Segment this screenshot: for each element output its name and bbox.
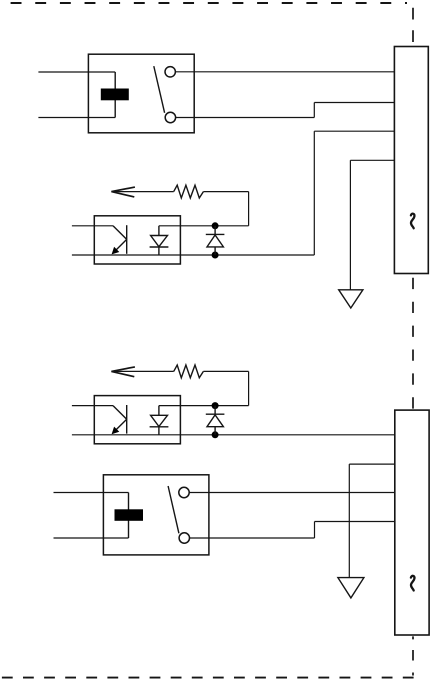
wire: R2 right lead	[203, 370, 248, 372]
node D junction dot (bottom)	[212, 431, 219, 438]
U1 LED cathode bar	[150, 246, 169, 248]
ground symbol (open triangle)	[339, 290, 363, 308]
resistor R1	[174, 185, 204, 198]
relay K1 coil lead vertical	[114, 72, 116, 118]
wire: R2 left lead	[111, 370, 173, 372]
resistor R2	[174, 365, 204, 378]
diode D2 triangle (pointing up)	[207, 415, 223, 427]
connector X2 box	[395, 410, 429, 635]
wire: step vertical at x314 (lower)	[314, 522, 316, 539]
wire: connector X1 to opto return, horizontal	[314, 130, 394, 132]
relay K1 contact bottom	[165, 112, 175, 122]
optocoupler U2 box	[94, 396, 180, 444]
relay K1 coil (filled)	[101, 89, 129, 101]
U2 phototransistor emitter with arrowhead	[115, 419, 127, 431]
U1 LED anode stem	[158, 226, 160, 236]
wire: U1 LED anode branch to node A	[159, 225, 249, 227]
module boundary dashed line (bottom)	[2, 677, 414, 679]
relay K2 box	[103, 475, 208, 555]
module boundary dashed line (top)	[11, 2, 407, 4]
wire: connector X1 ground branch horizontal	[350, 159, 394, 161]
connector X1 box	[394, 47, 428, 274]
wire: K2 coil input top	[54, 492, 129, 494]
node B junction dot (bottom)	[212, 252, 219, 259]
wire: K2 bottom contact horizontal	[189, 537, 314, 539]
wire: U2 bottom rail to connector X2	[72, 434, 395, 436]
node A junction dot (top)	[212, 222, 219, 229]
relay K2 coil lead vertical	[128, 493, 130, 539]
wire: U1 phototransistor collector (left entry)	[72, 225, 113, 227]
diode D1 cathode stem	[214, 226, 216, 235]
wire: drop from R2 to opto anode rail	[248, 371, 250, 405]
module boundary dashed line (right, middle segment)	[412, 278, 414, 410]
wire: drop from R1 to opto anode rail	[248, 192, 250, 226]
relay K1 contact top	[165, 67, 175, 77]
module boundary dashed line (right, upper segment)	[412, 8, 414, 47]
U2 LED cathode stem	[158, 427, 160, 435]
U1 phototransistor collector diagonal	[113, 226, 127, 240]
wire: U2 LED anode branch to node C	[159, 405, 249, 407]
diode D1 triangle (pointing up)	[207, 235, 223, 247]
wire: ground branch vertical (lower)	[348, 464, 350, 577]
wire: step horizontal into connector X1	[314, 102, 394, 104]
relay K2 switch lever	[168, 486, 179, 533]
connector X1 squiggle	[411, 214, 415, 229]
wire: R1 left lead	[111, 191, 173, 193]
relay K1 box	[88, 54, 194, 133]
wire: step vertical at x314	[313, 103, 315, 118]
diode D2 cathode stem	[214, 406, 216, 415]
wire: U2 phototransistor collector (left entry)	[72, 405, 113, 407]
wire: K1 top contact to connector X1	[175, 71, 394, 73]
relay K2 contact bottom	[179, 533, 189, 543]
U2 phototransistor bar	[126, 405, 128, 434]
U2 LED anode stem	[158, 406, 160, 416]
relay K2 coil (filled)	[115, 509, 144, 521]
module boundary dashed line (right, lower segment)	[412, 636, 414, 677]
wire: ground branch vertical	[349, 160, 351, 289]
wire: K2 coil input bottom	[54, 537, 129, 539]
arrow (signal direction) on R2 line	[111, 367, 134, 377]
wire: K1 coil input bottom	[38, 117, 115, 119]
U1 LED triangle	[151, 236, 168, 247]
wire: R1 right lead	[203, 191, 248, 193]
diode D2 anode stem	[214, 427, 216, 435]
wire: K2 top contact to connector X2	[189, 492, 395, 494]
wire: step horizontal into connector X2	[315, 521, 395, 523]
wire: connector X2 ground branch horizontal	[349, 463, 395, 465]
arrow (signal direction) on R1 line	[111, 187, 134, 197]
relay K1 switch lever	[154, 66, 165, 113]
wire: vertical drop x314 to opto bottom rail	[313, 131, 315, 255]
diode D2 cathode bar	[206, 413, 225, 415]
U2 LED cathode bar	[150, 426, 169, 428]
wire: U1 bottom rail (emitter/cathode return)	[72, 254, 314, 256]
U2 phototransistor collector diagonal	[113, 406, 127, 420]
wire: K1 bottom contact horizontal	[175, 117, 314, 119]
U1 phototransistor bar	[126, 225, 128, 254]
node C junction dot (top)	[212, 402, 219, 409]
diode D1 anode stem	[214, 247, 216, 255]
relay K2 contact top	[179, 487, 189, 497]
U1 LED cathode stem	[158, 247, 160, 255]
U2 LED triangle	[151, 415, 168, 426]
ground symbol lower (open triangle)	[338, 578, 364, 598]
diode D1 cathode bar	[206, 233, 225, 235]
U1 phototransistor emitter with arrowhead	[115, 239, 127, 251]
connector X2 squiggle	[411, 576, 415, 591]
wire: K1 coil input top	[38, 71, 115, 73]
optocoupler U1 box	[94, 216, 180, 264]
